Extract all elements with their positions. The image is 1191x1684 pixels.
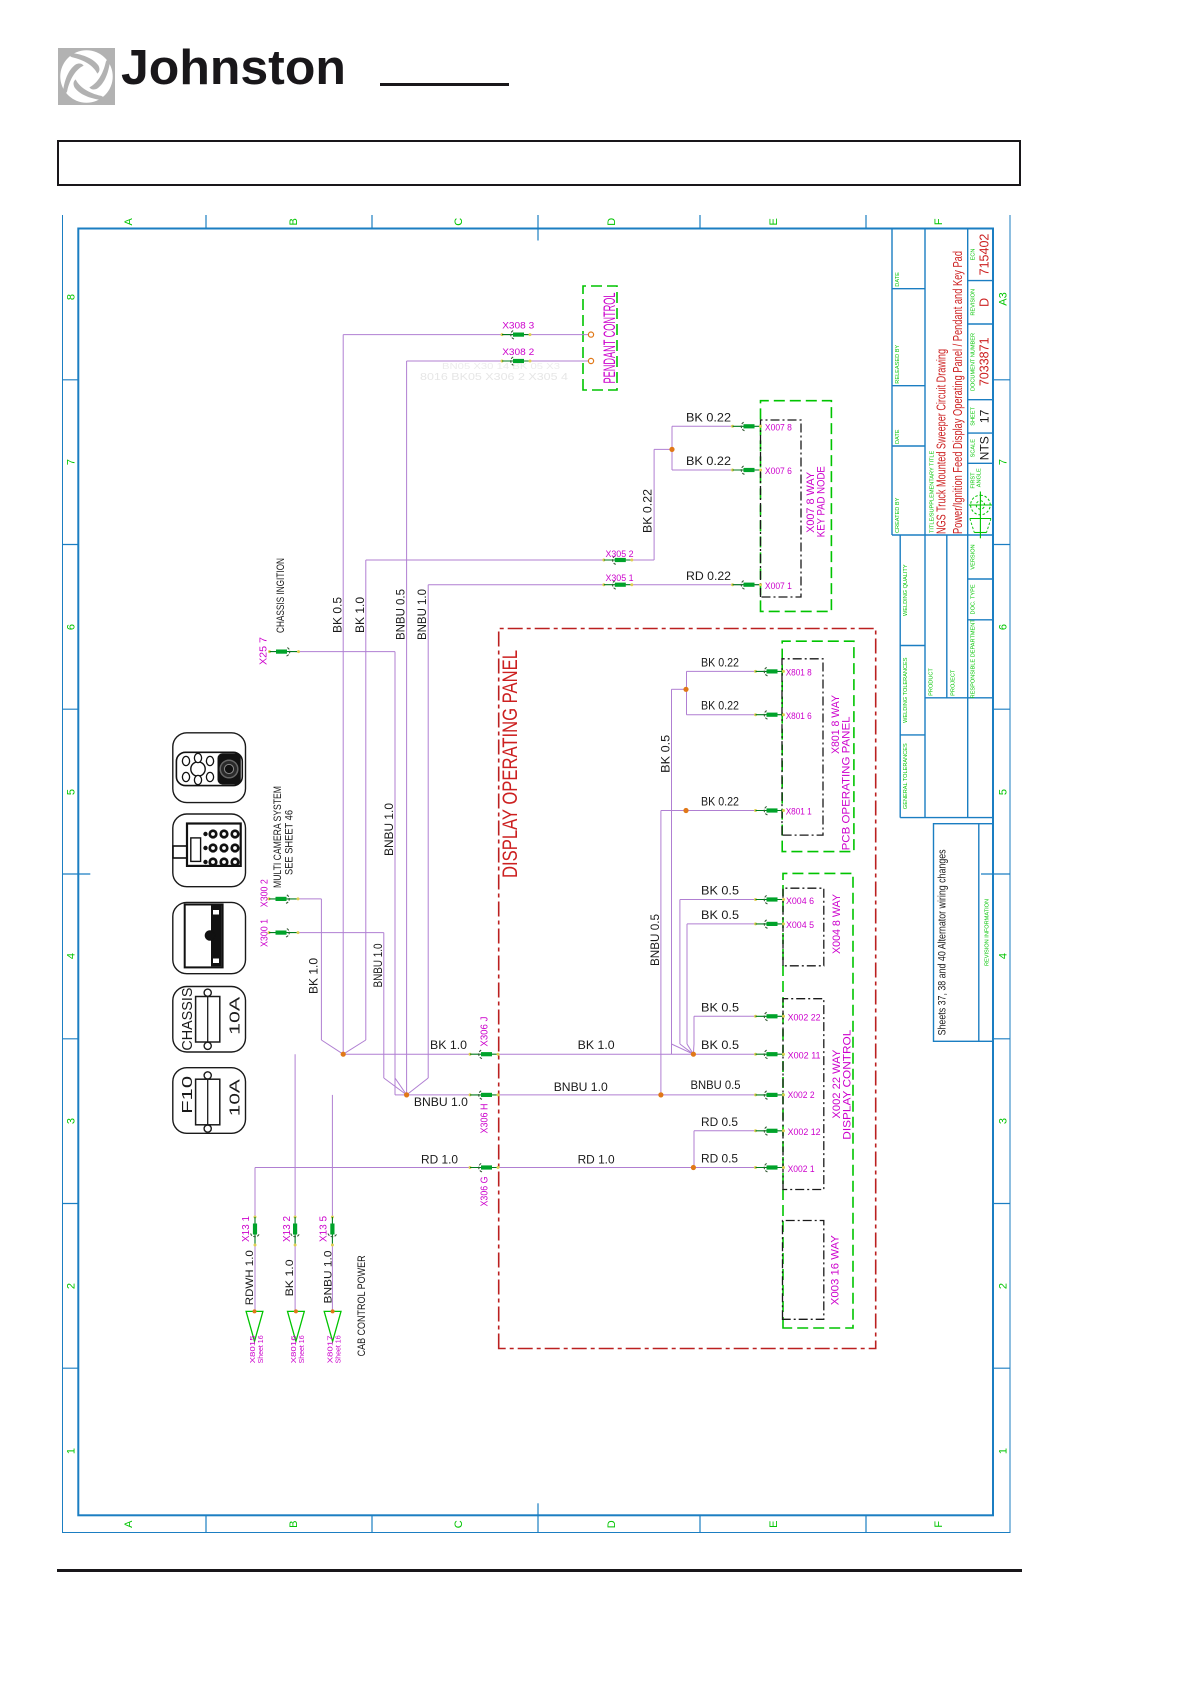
svg-text:8016 BK05 X306 2 X305 4: 8016 BK05 X306 2 X305 4	[420, 372, 569, 383]
svg-text:6: 6	[998, 624, 1010, 630]
svg-text:X002 12: X002 12	[788, 1127, 821, 1138]
svg-text:BK 0.5: BK 0.5	[701, 1040, 739, 1052]
svg-text:F10: F10	[179, 1076, 196, 1114]
svg-text:Sheets 37, 38 and 40 Alternato: Sheets 37, 38 and 40 Alternator wiring c…	[937, 849, 949, 1035]
svg-text:BK 0.22: BK 0.22	[701, 701, 739, 713]
svg-text:SCALE: SCALE	[971, 439, 977, 458]
svg-text:4: 4	[998, 953, 1010, 959]
svg-text:RD 0.22: RD 0.22	[686, 571, 731, 583]
svg-text:CREATED BY: CREATED BY	[895, 497, 901, 533]
svg-text:715402: 715402	[978, 234, 992, 276]
svg-text:DATE: DATE	[895, 272, 901, 287]
svg-text:BNBU 0.5: BNBU 0.5	[691, 1080, 741, 1092]
svg-text:CHASSIS INGITION: CHASSIS INGITION	[275, 558, 287, 633]
svg-text:RD 1.0: RD 1.0	[578, 1155, 615, 1167]
svg-text:X13 1: X13 1	[240, 1216, 252, 1242]
svg-text:DOC. TYPE: DOC. TYPE	[971, 584, 977, 614]
svg-text:X306 H: X306 H	[479, 1104, 491, 1134]
svg-text:5: 5	[66, 789, 78, 795]
svg-text:CHASSIS: CHASSIS	[179, 988, 196, 1051]
svg-text:BK 0.5: BK 0.5	[333, 597, 345, 633]
svg-text:RELEASED BY: RELEASED BY	[895, 345, 901, 384]
svg-text:BNBU 1.0: BNBU 1.0	[554, 1082, 608, 1094]
svg-text:RDWH 1.0: RDWH 1.0	[244, 1250, 256, 1305]
svg-text:X801 8: X801 8	[786, 667, 812, 678]
svg-text:BK 0.5: BK 0.5	[701, 1002, 739, 1014]
svg-text:WELDING TOLERANCES: WELDING TOLERANCES	[903, 657, 909, 723]
svg-text:X004 6: X004 6	[786, 896, 814, 907]
svg-text:4: 4	[66, 953, 78, 959]
svg-text:BNBU 0.5: BNBU 0.5	[650, 914, 662, 966]
svg-text:2: 2	[998, 1283, 1010, 1289]
svg-text:BK 0.22: BK 0.22	[701, 658, 739, 670]
svg-text:WELDING QUALITY: WELDING QUALITY	[903, 564, 909, 616]
svg-text:B: B	[288, 218, 300, 225]
svg-text:X306 G: X306 G	[479, 1177, 491, 1207]
svg-text:BK 1.0: BK 1.0	[309, 958, 321, 994]
svg-text:1: 1	[998, 1448, 1010, 1454]
svg-text:D: D	[606, 218, 618, 226]
svg-text:F: F	[933, 218, 945, 225]
svg-text:X003 16 WAY: X003 16 WAY	[830, 1235, 842, 1306]
svg-text:A: A	[123, 217, 135, 225]
svg-text:X300 1: X300 1	[258, 919, 270, 947]
svg-text:BK 0.5: BK 0.5	[701, 886, 739, 898]
svg-text:BK 0.22: BK 0.22	[686, 456, 731, 468]
svg-text:X002 11: X002 11	[788, 1051, 821, 1062]
svg-text:7: 7	[66, 459, 78, 465]
svg-text:X002 22: X002 22	[788, 1013, 821, 1024]
svg-text:BK 1.0: BK 1.0	[430, 1040, 467, 1052]
svg-text:PRODUCT: PRODUCT	[929, 668, 935, 696]
svg-text:C: C	[453, 1520, 465, 1528]
svg-text:DATE: DATE	[895, 429, 901, 444]
svg-text:PENDANT CONTROL: PENDANT CONTROL	[601, 293, 619, 384]
svg-text:6: 6	[66, 624, 78, 630]
svg-text:BNBU 0.5: BNBU 0.5	[396, 589, 408, 640]
svg-text:X8016: X8016	[291, 1335, 298, 1363]
svg-text:F: F	[933, 1521, 945, 1528]
svg-text:X007 8: X007 8	[765, 423, 792, 434]
svg-text:BNBU 1.0: BNBU 1.0	[417, 589, 429, 640]
svg-text:X8015: X8015	[250, 1335, 257, 1363]
svg-text:ANGLE: ANGLE	[976, 468, 982, 487]
svg-text:X004 5: X004 5	[786, 920, 814, 931]
svg-text:BNBU 1.0: BNBU 1.0	[414, 1097, 468, 1109]
svg-text:PROJECT: PROJECT	[950, 669, 956, 696]
svg-text:X002 2: X002 2	[788, 1090, 815, 1101]
svg-text:E: E	[768, 1521, 780, 1528]
svg-text:SEE SHEET 46: SEE SHEET 46	[284, 810, 296, 875]
svg-text:BK 1.0: BK 1.0	[355, 597, 367, 633]
svg-text:X13 5: X13 5	[317, 1216, 329, 1242]
svg-text:BK 1.0: BK 1.0	[284, 1259, 296, 1296]
svg-text:BK 0.5: BK 0.5	[701, 910, 739, 922]
svg-text:BK 1.0: BK 1.0	[578, 1040, 615, 1052]
svg-text:BNBU 1.0: BNBU 1.0	[373, 944, 385, 988]
svg-text:A: A	[123, 1520, 135, 1528]
svg-text:ECN: ECN	[971, 249, 977, 261]
svg-text:10A: 10A	[227, 997, 244, 1035]
svg-text:X004 8 WAY: X004 8 WAY	[831, 893, 843, 954]
svg-text:X308 3: X308 3	[502, 321, 534, 332]
svg-text:BK 0.22: BK 0.22	[686, 413, 731, 425]
svg-text:10A: 10A	[227, 1079, 244, 1116]
svg-text:BK 0.5: BK 0.5	[661, 735, 673, 773]
svg-text:NGS Truck Mounted Sweeper Circ: NGS Truck Mounted Sweeper Circuit Drawin…	[935, 349, 949, 534]
svg-text:7033871: 7033871	[978, 337, 992, 386]
svg-text:X305 2: X305 2	[606, 549, 634, 560]
svg-text:PCB OPERATING PANEL: PCB OPERATING PANEL	[841, 716, 853, 850]
svg-text:D: D	[978, 298, 992, 307]
svg-text:RD 1.0: RD 1.0	[421, 1155, 458, 1167]
svg-text:Power/Ignition Feed Display Op: Power/Ignition Feed Display Operating Pa…	[951, 251, 965, 534]
svg-text:BN05 X30 14 BK 05 X3: BN05 X30 14 BK 05 X3	[442, 361, 560, 371]
svg-text:X305 1: X305 1	[606, 573, 634, 584]
svg-text:X308 2: X308 2	[502, 347, 534, 358]
svg-text:X002 1: X002 1	[788, 1164, 815, 1175]
svg-text:D: D	[606, 1520, 618, 1528]
svg-text:BNBU 1.0: BNBU 1.0	[323, 1251, 335, 1304]
svg-text:8: 8	[66, 294, 78, 300]
svg-text:E: E	[768, 218, 780, 225]
svg-text:3: 3	[998, 1118, 1010, 1124]
svg-text:X007 6: X007 6	[765, 466, 792, 477]
svg-text:BK 0.22: BK 0.22	[701, 796, 739, 808]
svg-text:2: 2	[66, 1283, 78, 1289]
svg-text:RD 0.5: RD 0.5	[701, 1117, 738, 1129]
svg-text:DISPLAY OPERATING PANEL: DISPLAY OPERATING PANEL	[499, 650, 522, 878]
svg-text:X007 1: X007 1	[765, 581, 792, 592]
svg-text:BNBU 1.0: BNBU 1.0	[384, 803, 396, 856]
svg-text:C: C	[453, 218, 465, 226]
svg-text:REVISION: REVISION	[971, 289, 977, 316]
svg-text:NTS: NTS	[978, 436, 992, 460]
svg-text:A3: A3	[998, 292, 1010, 305]
svg-text:SHEET: SHEET	[971, 406, 977, 425]
svg-text:DISPLAY CONTROL: DISPLAY CONTROL	[841, 1030, 853, 1140]
svg-text:Sheet 16: Sheet 16	[258, 1335, 265, 1363]
svg-text:DOCUMENT NUMBER: DOCUMENT NUMBER	[971, 333, 977, 391]
svg-text:REVISION INFORMATION: REVISION INFORMATION	[985, 899, 991, 966]
svg-text:X801 1: X801 1	[786, 807, 812, 818]
svg-text:VERSION: VERSION	[971, 544, 977, 569]
svg-text:BK 0.22: BK 0.22	[643, 489, 655, 533]
svg-text:X801 6: X801 6	[786, 711, 812, 722]
svg-text:3: 3	[66, 1118, 78, 1124]
svg-text:5: 5	[998, 789, 1010, 795]
svg-text:1: 1	[66, 1448, 78, 1454]
svg-text:MULTI CAMERA SYSTEM: MULTI CAMERA SYSTEM	[272, 786, 284, 888]
svg-text:7: 7	[998, 459, 1010, 465]
svg-text:17: 17	[978, 409, 992, 423]
svg-text:Sheet 16: Sheet 16	[299, 1335, 306, 1363]
svg-text:CAB CONTROL POWER: CAB CONTROL POWER	[356, 1255, 368, 1356]
svg-text:X8017: X8017	[328, 1335, 335, 1363]
svg-text:GENERAL TOLERANCES: GENERAL TOLERANCES	[903, 743, 909, 809]
svg-text:X13 2: X13 2	[281, 1216, 293, 1242]
svg-text:RD 0.5: RD 0.5	[701, 1154, 738, 1166]
svg-text:KEY PAD NODE: KEY PAD NODE	[816, 466, 828, 537]
svg-text:X306 J: X306 J	[479, 1017, 491, 1047]
svg-text:X300 2: X300 2	[258, 879, 270, 907]
svg-text:B: B	[288, 1521, 300, 1528]
svg-text:RESPONSIBLE DEPARTMENT: RESPONSIBLE DEPARTMENT	[971, 619, 977, 699]
svg-text:X25 7: X25 7	[258, 637, 270, 665]
svg-text:Sheet 16: Sheet 16	[336, 1335, 343, 1363]
